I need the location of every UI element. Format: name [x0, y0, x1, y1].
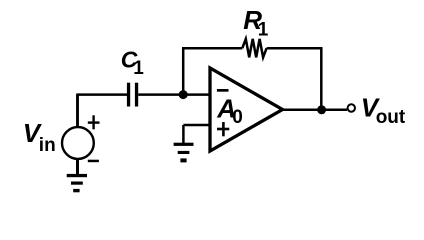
- capacitor C1: [127, 83, 138, 107]
- voltage source Vin: [62, 115, 100, 162]
- svg-text:0: 0: [232, 107, 243, 128]
- wire: [320, 48, 323, 109]
- label Vin: [23, 118, 56, 156]
- svg-text:in: in: [39, 135, 56, 156]
- wire: [182, 125, 185, 143]
- wire: [267, 47, 323, 50]
- ground: [67, 174, 87, 192]
- node inverting input junction: [179, 90, 188, 99]
- output terminal: [348, 104, 355, 111]
- wire: [76, 159, 79, 175]
- node output junction: [317, 105, 326, 114]
- op-amp non-inverting pin mark: [217, 122, 229, 136]
- label A0: [216, 93, 242, 127]
- wire: [182, 48, 185, 94]
- wire: [76, 93, 127, 96]
- label C1: [121, 47, 144, 80]
- resistor R1: [242, 39, 266, 58]
- wire: [182, 47, 242, 50]
- wire: [138, 93, 208, 96]
- wire: [183, 124, 208, 127]
- svg-text:1: 1: [258, 20, 269, 41]
- label R1: [243, 5, 268, 40]
- op-amp U1 triangle: [210, 68, 283, 151]
- wire: [283, 108, 348, 111]
- label Vout: [361, 92, 406, 128]
- svg-text:1: 1: [133, 58, 144, 79]
- svg-text:out: out: [376, 107, 406, 128]
- op-amp inverting pin mark: [217, 89, 229, 92]
- wire: [76, 95, 79, 127]
- ground: [174, 143, 194, 163]
